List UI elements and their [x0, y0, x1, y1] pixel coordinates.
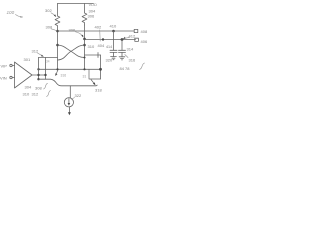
terminal VON [135, 38, 139, 41]
current source I1 (circle) [64, 98, 73, 107]
svg-text:302: 302 [45, 8, 52, 13]
svg-text:318: 318 [95, 88, 102, 93]
wire x=84.5 vertical (right branch down to tail rail) [84, 25, 86, 69]
node ladder bottom (dot at 38.5,78.5) [37, 78, 39, 80]
terminal VOP [134, 29, 138, 32]
label 306 with curved arrow to R2 bottom node [69, 28, 84, 38]
svg-text:404: 404 [98, 43, 105, 48]
input terminal VIP [1, 64, 15, 69]
svg-text:304: 304 [25, 85, 32, 90]
svg-text:31: 31 [83, 74, 87, 78]
node left transistor at rail [56, 68, 58, 70]
wire x=100.5 vertical to rail [100, 55, 102, 79]
capacitor C2 (from VON line to ground) [119, 40, 126, 57]
svg-text:301: 301 [24, 57, 31, 62]
ground (under C2) [119, 57, 125, 60]
plate tick on source branch [97, 53, 99, 58]
svg-text:402: 402 [95, 25, 102, 30]
label 302 with curved arrow to R1 [45, 8, 56, 17]
squiggle mark (right) [140, 63, 145, 70]
transistor Q1 emitter arrow (left) [55, 70, 58, 76]
input terminal VIN [0, 76, 15, 81]
wire emitter U-curve (common tail) [39, 79, 98, 86]
wire tail down to current source [69, 86, 71, 98]
wire cross-couple path 2 (right node to left transistor) [58, 45, 85, 60]
label 322 with leader to current source [72, 93, 82, 100]
svg-text:84 78: 84 78 [120, 66, 131, 71]
node output to ladder (dot at 38.5,74.5) [37, 74, 39, 76]
svg-text:100: 100 [7, 10, 15, 15]
node right output (dot at 84.5,39.5) [83, 38, 86, 41]
wire tail rail (y=71) [39, 68, 101, 70]
ground (under C1) [111, 57, 117, 60]
transistor Q2 emitter arrow [91, 80, 95, 86]
node right cross tap (dot at 84.5,45) [83, 44, 86, 47]
svg-text:316: 316 [61, 73, 67, 77]
label 402 with leader to VON line [95, 25, 105, 42]
node cap B tap (dot at 122,39.5) [121, 38, 124, 41]
squiggle mark (left row 1) [44, 83, 48, 89]
node cap A tap (dot at 113.5,31) [112, 30, 115, 33]
svg-text:316: 316 [129, 58, 136, 63]
svg-text:306: 306 [88, 14, 95, 19]
label 412 with curved arrow to node at 122,39.5 [123, 34, 136, 40]
svg-text:VDD: VDD [89, 2, 98, 7]
node x=100.5 at rail [99, 68, 102, 71]
node path1 joins right branch (dot at 84.5,57.5) [84, 57, 86, 59]
squiggle mark (left row 2) [47, 91, 51, 97]
wire op-amp output [32, 74, 46, 76]
svg-text:306: 306 [69, 28, 76, 33]
svg-text:312: 312 [32, 49, 39, 54]
node left output (dot at 57.5,31) [56, 30, 59, 33]
node left cross tap (dot at 57.5,45) [56, 44, 59, 47]
label 316 with bent leader to ground [125, 55, 136, 63]
svg-text:34: 34 [46, 60, 50, 64]
wire cross-couple path 1 (left node to right transistor) [58, 45, 85, 58]
node op-amp feedback (dot at 38.5,71) [37, 68, 39, 70]
svg-text:322: 322 [75, 93, 82, 98]
current source internal arrow [68, 99, 71, 106]
wire below current source with arrowhead [68, 107, 71, 115]
svg-text:312: 312 [32, 92, 39, 97]
label 312 with arrow to bias ladder [32, 49, 44, 57]
wire output line VON (y=39.5) [85, 39, 136, 41]
capacitor C1 (from VOP line to ground) [110, 31, 117, 57]
svg-text:314: 314 [127, 47, 134, 52]
node ladder right leg (dot at 45.5,74.5) [44, 74, 46, 76]
wire source branch (y=55) [85, 54, 101, 56]
svg-text:VIP: VIP [1, 64, 8, 69]
svg-text:VIN: VIN [0, 76, 7, 81]
svg-text:310: 310 [23, 92, 30, 97]
bias ladder left leg (x=38.5) [38, 58, 40, 80]
wire x=57.5 vertical (left branch down to tail rail) [57, 31, 59, 69]
svg-text:406: 406 [141, 39, 148, 44]
VDD supply rail [58, 3, 94, 5]
figure reference label 100 with curved arrow [7, 10, 23, 18]
svg-text:410: 410 [110, 24, 117, 29]
wire output line VOP (y=31) [58, 30, 135, 32]
op-amp U1 [15, 62, 33, 88]
bias ladder right leg (x=45.5) [45, 58, 47, 80]
resistor R2 (right load) [82, 4, 87, 26]
transistor Q2 base bar (right) [89, 69, 101, 79]
svg-text:320: 320 [106, 58, 113, 63]
svg-text:310: 310 [88, 44, 95, 49]
svg-text:308: 308 [35, 86, 42, 91]
label 308 with leader to left output node [46, 25, 56, 31]
resistor R1 (left load) [55, 4, 60, 32]
svg-text:408: 408 [141, 29, 148, 34]
node right transistor at rail [83, 68, 85, 70]
svg-text:414: 414 [106, 45, 112, 49]
bias ladder top wire (y=57.5) [39, 57, 58, 59]
